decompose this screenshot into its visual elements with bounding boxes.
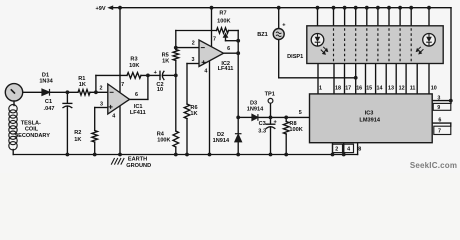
svg-text:100K: 100K xyxy=(157,138,170,144)
svg-text:11: 11 xyxy=(410,86,416,92)
svg-text:3: 3 xyxy=(437,95,440,101)
svg-text:DISP1: DISP1 xyxy=(287,54,303,60)
svg-text:6: 6 xyxy=(135,92,138,98)
svg-text:1N34: 1N34 xyxy=(39,78,53,84)
svg-text:10: 10 xyxy=(157,87,163,93)
svg-text:BZ1: BZ1 xyxy=(257,32,268,38)
svg-text:1K: 1K xyxy=(162,58,169,64)
svg-text:D2: D2 xyxy=(217,132,224,138)
svg-text:4: 4 xyxy=(112,113,115,119)
svg-text:3: 3 xyxy=(100,102,103,108)
svg-text:5: 5 xyxy=(299,110,302,116)
svg-text:SeekIC.com: SeekIC.com xyxy=(410,161,457,170)
svg-text:14: 14 xyxy=(377,86,383,92)
svg-text:7: 7 xyxy=(213,37,216,43)
svg-text:15: 15 xyxy=(366,86,372,92)
svg-text:R7: R7 xyxy=(219,11,226,17)
svg-text:4: 4 xyxy=(347,146,350,152)
svg-text:9: 9 xyxy=(437,105,440,111)
svg-text:1N914: 1N914 xyxy=(213,138,230,144)
svg-text:17: 17 xyxy=(345,86,351,92)
svg-text:R3: R3 xyxy=(130,57,137,63)
svg-text:1: 1 xyxy=(319,86,322,92)
svg-text:3: 3 xyxy=(192,57,195,63)
svg-text:IC3: IC3 xyxy=(365,111,374,117)
svg-text:10K: 10K xyxy=(129,63,139,69)
svg-text:+9V: +9V xyxy=(95,6,105,12)
svg-text:12: 12 xyxy=(399,86,405,92)
svg-text:.047: .047 xyxy=(44,106,55,112)
svg-text:2: 2 xyxy=(335,146,338,152)
svg-text:13: 13 xyxy=(388,86,394,92)
svg-text:TP1: TP1 xyxy=(265,92,275,98)
svg-text:R4: R4 xyxy=(157,131,165,137)
svg-text:2: 2 xyxy=(192,40,195,46)
svg-text:COIL: COIL xyxy=(25,126,39,132)
svg-text:C3: C3 xyxy=(259,121,266,127)
svg-text:LM3914: LM3914 xyxy=(359,117,380,123)
svg-text:16: 16 xyxy=(356,86,362,92)
svg-text:1K: 1K xyxy=(74,137,81,143)
svg-text:3.3: 3.3 xyxy=(258,129,266,135)
svg-text:1K: 1K xyxy=(190,111,197,117)
svg-text:LF411: LF411 xyxy=(218,66,234,72)
svg-text:4: 4 xyxy=(204,68,207,74)
svg-text:1K: 1K xyxy=(79,82,86,88)
svg-text:6: 6 xyxy=(438,118,441,124)
svg-text:LF411: LF411 xyxy=(130,110,146,116)
svg-text:R2: R2 xyxy=(74,130,81,136)
svg-text:7: 7 xyxy=(438,129,441,135)
svg-text:2: 2 xyxy=(100,86,103,92)
svg-text:C1: C1 xyxy=(45,99,52,105)
svg-text:10: 10 xyxy=(431,86,437,92)
svg-text:8: 8 xyxy=(358,146,361,152)
svg-text:100K: 100K xyxy=(289,127,302,133)
svg-text:GROUND: GROUND xyxy=(126,163,151,169)
svg-text:1N914: 1N914 xyxy=(247,106,264,112)
svg-text:6: 6 xyxy=(227,46,230,52)
svg-text:SECONDARY: SECONDARY xyxy=(14,133,50,139)
svg-text:7: 7 xyxy=(121,82,124,88)
svg-text:18: 18 xyxy=(335,86,341,92)
svg-text:EARTH: EARTH xyxy=(128,157,147,163)
svg-text:100K: 100K xyxy=(217,18,230,24)
